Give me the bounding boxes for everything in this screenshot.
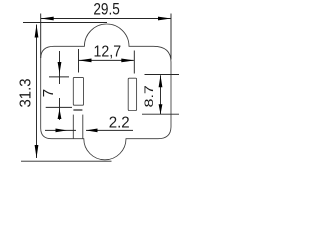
svg-text:2.2: 2.2	[109, 114, 130, 131]
svg-text:31.3: 31.3	[18, 78, 35, 107]
part outline	[41, 24, 171, 160]
svg-text:7: 7	[40, 89, 57, 97]
slot B (right inner slot)	[128, 78, 136, 110]
dimension 2.2	[45, 129, 133, 131]
channel lines (2.2 notch)	[72, 115, 74, 139]
dimension 31.3	[21, 23, 112, 162]
bar below slot A	[73, 109, 82, 111]
dimension 29.5	[41, 14, 171, 60]
svg-text:29.5: 29.5	[93, 1, 120, 19]
slot A (left inner slot)	[73, 77, 83, 105]
dimension 7	[46, 51, 72, 120]
dimension 12.7	[78, 49, 134, 74]
svg-text:8.7: 8.7	[144, 85, 156, 108]
dimension 8.7	[142, 75, 179, 115]
svg-text:12,7: 12,7	[94, 43, 122, 60]
